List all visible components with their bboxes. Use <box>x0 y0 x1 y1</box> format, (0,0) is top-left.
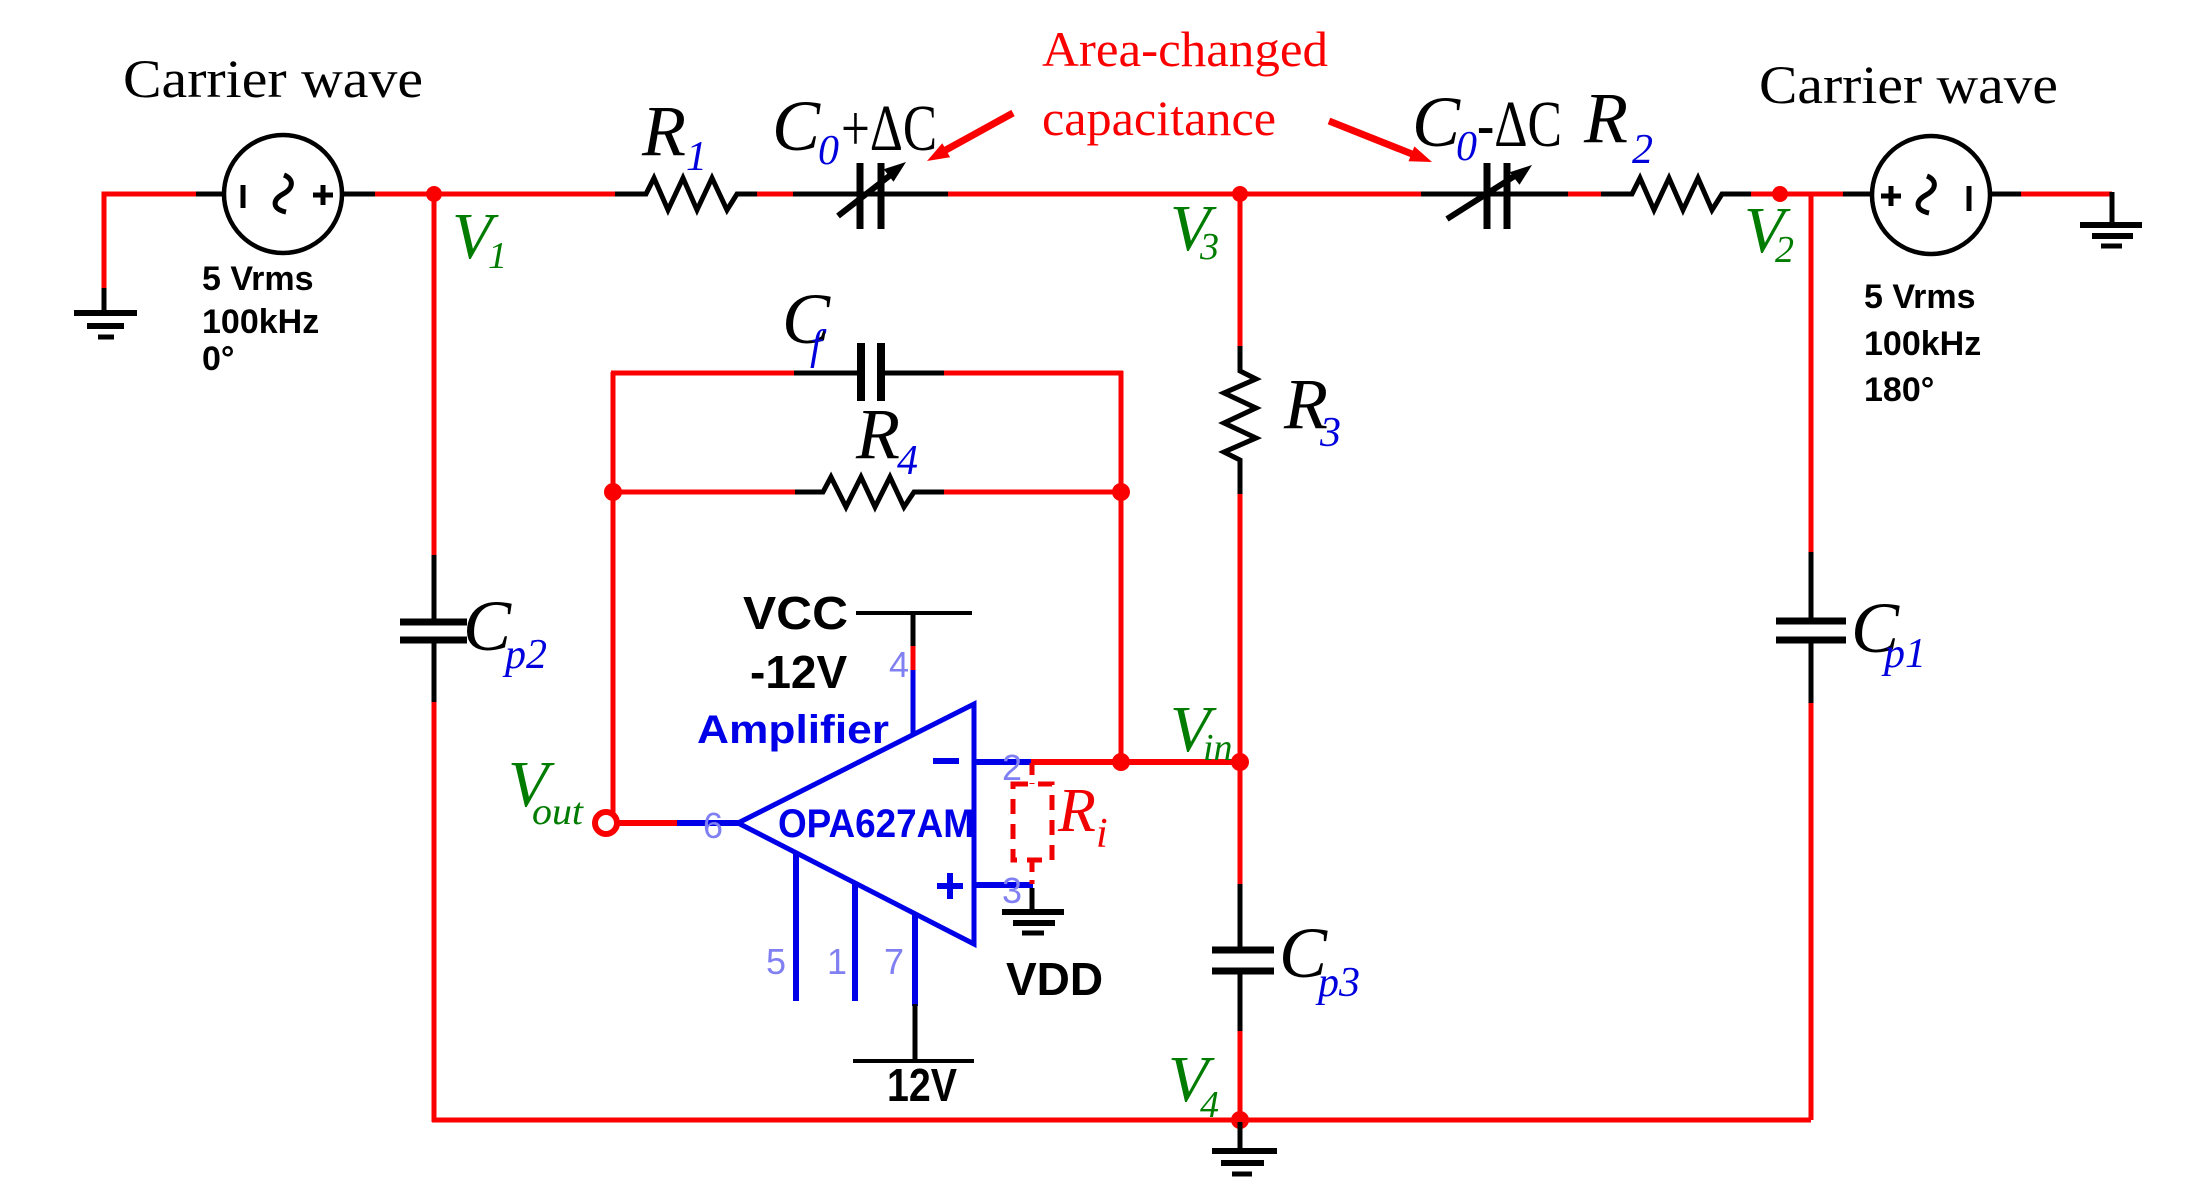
ground (left source) <box>74 288 137 337</box>
12V rail <box>853 1004 974 1061</box>
wire: pin 2 to Vin <box>1031 759 1242 765</box>
svg-text:0: 0 <box>1456 124 1477 170</box>
svg-text:4: 4 <box>897 438 918 484</box>
wire: feedback top rail (Cf branch) <box>611 371 1123 376</box>
svg-text:2: 2 <box>1632 127 1653 173</box>
svg-text:6: 6 <box>703 805 723 846</box>
svg-text:VCC: VCC <box>743 587 848 639</box>
annotation arrow to C0+dC <box>927 113 1013 161</box>
svg-text:in: in <box>1203 727 1233 769</box>
annotation arrow to C0-dC <box>1329 121 1432 162</box>
svg-text:R: R <box>855 394 900 474</box>
svg-text:1: 1 <box>488 235 507 277</box>
node V1 junction dot <box>426 186 442 202</box>
resistor R1 <box>615 178 757 210</box>
pin 3 lead (non-inverting input) <box>974 882 1033 888</box>
svg-text:i: i <box>1096 811 1108 857</box>
wire: C0+dC to V3 <box>948 192 1422 197</box>
svg-text:C: C <box>1412 82 1461 162</box>
node V2 junction dot <box>1772 186 1788 202</box>
pin 2 lead (inverting input) <box>974 759 1033 765</box>
ground (top right) <box>2080 192 2142 246</box>
svg-text:0°: 0° <box>202 340 235 378</box>
capacitor Cf <box>794 343 944 401</box>
svg-text:C: C <box>782 279 831 359</box>
wire: feedback loop left vertical (Vout column) <box>611 372 616 813</box>
svg-text:12V: 12V <box>887 1059 957 1111</box>
svg-text:Carrier wave: Carrier wave <box>123 49 423 109</box>
svg-text:3: 3 <box>1199 226 1219 268</box>
wire: R4 row right <box>944 490 1121 495</box>
svg-text:1: 1 <box>686 134 707 180</box>
value label: 5 Vrms 100kHz 0deg (left source) <box>202 260 319 378</box>
ground (pin 3 / VDD) <box>1002 888 1064 933</box>
wire: right source to top-right ground <box>2021 192 2112 197</box>
svg-text:5: 5 <box>766 941 786 982</box>
svg-text:capacitance: capacitance <box>1042 90 1276 146</box>
node V4 junction dot <box>1231 1111 1249 1129</box>
svg-text:4: 4 <box>1200 1084 1219 1126</box>
svg-text:Amplifier: Amplifier <box>697 708 889 752</box>
variable capacitor C0-dC <box>1421 163 1568 229</box>
svg-text:5 Vrms: 5 Vrms <box>1864 278 1976 316</box>
svg-text:1: 1 <box>827 941 847 982</box>
node Vin junction dot <box>1231 753 1249 771</box>
capacitor Cp3 <box>1212 884 1274 1032</box>
wire: Cp1 down to bottom-right corner <box>1809 703 1814 1120</box>
wire: V3 down to R3 <box>1238 194 1243 348</box>
pin 6 lead (output) <box>676 820 740 826</box>
svg-text:100kHz: 100kHz <box>202 303 319 341</box>
variable capacitor C0+dC <box>793 162 948 229</box>
svg-text:4: 4 <box>889 644 909 685</box>
svg-text:p3: p3 <box>1315 960 1360 1006</box>
resistor Ri (ideal input resistance, dashed) <box>1013 763 1052 884</box>
node Vout open circle <box>595 812 617 834</box>
svg-text:Area-changed: Area-changed <box>1042 21 1328 77</box>
wire: Cp2 down to bottom-left corner <box>432 702 437 1122</box>
svg-text:R: R <box>1057 777 1096 845</box>
wire: Vin down to Cp3 <box>1238 762 1243 886</box>
wire: V2 column down to Cp1 <box>1809 194 1814 554</box>
svg-text:R: R <box>641 91 686 171</box>
svg-text:Carrier wave: Carrier wave <box>1759 55 2058 115</box>
AC source V5 (left carrier source) <box>196 135 375 253</box>
svg-text:R: R <box>1583 78 1628 158</box>
svg-text:OPA627AM: OPA627AM <box>778 802 974 846</box>
wire: feedback loop right vertical <box>1119 371 1124 763</box>
pin 5 lead <box>793 853 799 1001</box>
wire: VCC red segment <box>911 646 916 672</box>
resistor R2 <box>1601 178 1751 210</box>
resistor R3 <box>1224 346 1256 495</box>
wire: bottom rail <box>432 1118 1811 1123</box>
svg-text:p1: p1 <box>1881 631 1926 677</box>
VCC rail <box>856 613 972 648</box>
svg-text:5 Vrms: 5 Vrms <box>202 260 314 298</box>
svg-text:7: 7 <box>884 941 904 982</box>
svg-text:-ΔC: -ΔC <box>1477 88 1562 161</box>
op-amp U1 triangle <box>738 704 974 944</box>
svg-text:-12V: -12V <box>750 646 847 698</box>
capacitor Cp1 <box>1776 552 1846 704</box>
ground (V4) <box>1212 1122 1277 1174</box>
wire: left source negative terminal to ground corner <box>104 194 200 290</box>
node V3 junction dot <box>1232 186 1248 202</box>
junction dot (feedback / pin2 wire) <box>1112 753 1130 771</box>
op-amp inverting input marker <box>933 758 959 764</box>
resistor R4 <box>795 477 945 507</box>
svg-text:180°: 180° <box>1864 371 1934 409</box>
svg-text:100kHz: 100kHz <box>1864 325 1981 363</box>
pin 7 lead <box>912 914 918 1006</box>
wire: left source to V1 to R1 <box>375 192 616 197</box>
wire: Vout to pin 6 <box>617 820 677 826</box>
wire: C0-dC to R2 <box>1568 192 1602 197</box>
svg-text:2: 2 <box>1775 229 1794 271</box>
value label: 5 Vrms 100kHz 180deg (right source) <box>1864 278 1981 409</box>
svg-text:3: 3 <box>1002 870 1022 911</box>
svg-text:VDD: VDD <box>1006 953 1103 1005</box>
svg-text:0: 0 <box>818 128 839 174</box>
svg-text:p2: p2 <box>502 632 547 678</box>
wire: R4 row left <box>611 490 796 495</box>
svg-text:+ΔC: +ΔC <box>841 92 937 165</box>
AC source V6 (right carrier source) <box>1843 136 2021 254</box>
pin 4 lead (VCC) <box>911 670 916 736</box>
capacitor Cp2 <box>400 555 467 703</box>
wire: V1 column down to Cp2 <box>432 194 437 557</box>
svg-text:3: 3 <box>1319 410 1341 456</box>
svg-text:out: out <box>532 791 585 833</box>
junction dot (feedback left / R4) <box>604 483 622 501</box>
wire: R1 to C0+dC <box>757 192 795 197</box>
pin 1 lead <box>852 883 858 1001</box>
wire: R2 to V2 to right source <box>1751 192 1844 197</box>
junction dot (feedback right / R4) <box>1112 483 1130 501</box>
svg-text:C: C <box>772 86 821 166</box>
wire: Cp3 down to V4 <box>1238 1031 1243 1121</box>
wire: R3 down to Vin <box>1238 494 1243 763</box>
op-amp non-inverting input marker <box>937 873 963 899</box>
